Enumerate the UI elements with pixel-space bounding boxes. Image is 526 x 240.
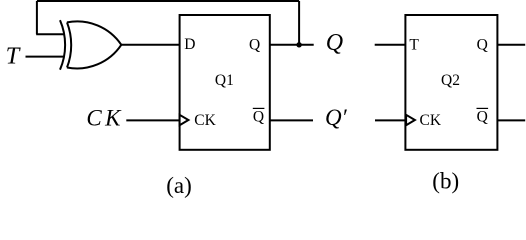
xor-gate U1 input arc <box>60 20 65 69</box>
overline for Qbar (Q1) <box>253 107 265 109</box>
wire T input Q2 <box>375 44 406 46</box>
wire feedback right vertical from top to Q node <box>298 1 300 45</box>
svg-text:D: D <box>184 36 195 53</box>
xor-gate U1 body <box>67 21 121 68</box>
wire Q output Q2 <box>497 44 525 46</box>
svg-text:CK: CK <box>420 112 442 129</box>
wire feedback top horizontal <box>37 0 299 2</box>
clock triangle Q1 <box>180 115 189 125</box>
overline for Qbar (Q2) <box>477 107 489 109</box>
svg-text:CK: CK <box>194 112 216 129</box>
svg-text:Q2: Q2 <box>441 72 460 89</box>
wire Qbar output <box>270 119 313 121</box>
svg-text:(b): (b) <box>432 168 459 193</box>
wire feedback left vertical <box>36 1 38 34</box>
wire feedback into XOR top input <box>36 33 64 35</box>
wire CK input Q2 <box>375 119 405 121</box>
svg-text:Q: Q <box>477 36 488 53</box>
svg-text:(a): (a) <box>166 173 192 198</box>
wire T input to XOR <box>26 56 65 58</box>
svg-text:Q′: Q′ <box>325 105 348 130</box>
svg-text:T: T <box>6 43 22 70</box>
svg-text:Q1: Q1 <box>215 72 234 89</box>
wire XOR output to D pin <box>121 44 180 46</box>
svg-text:Q: Q <box>326 30 343 56</box>
wire CK input to Q1 <box>126 119 179 121</box>
wire Q output <box>270 44 314 46</box>
flip-flop Q1 box <box>180 15 270 150</box>
clock triangle Q2 <box>406 115 415 125</box>
svg-text:Q: Q <box>477 108 488 125</box>
flip-flop Q2 box <box>405 15 497 150</box>
svg-text:CK: CK <box>86 105 123 130</box>
svg-text:Q: Q <box>253 108 264 125</box>
svg-text:T: T <box>409 37 419 54</box>
svg-text:Q: Q <box>249 36 260 53</box>
node Q junction dot <box>296 42 301 47</box>
wire Qbar output Q2 <box>497 119 525 121</box>
